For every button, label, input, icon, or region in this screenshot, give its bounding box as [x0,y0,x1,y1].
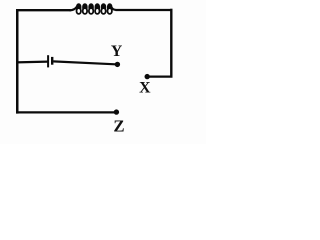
wire: middle branch, battery to terminal Y [53,61,115,64]
svg-text:Z: Z [113,116,124,135]
wire: top-left horizontal segment (to inductor) [16,9,71,11]
battery cell: long plate (left) [47,55,49,67]
wire: right vertical side [170,9,172,77]
node: terminal dot Z [114,109,119,114]
inductor L (coil, 6 loops) [70,5,116,14]
svg-text:X: X [139,79,151,96]
svg-text:Y: Y [111,43,123,60]
wire: bottom horizontal (to terminal Z) [16,111,116,113]
battery cell: short plate (right) [51,57,53,65]
wire: middle branch, left of battery [16,60,47,63]
node: terminal dot X [145,74,150,79]
wire: top-right horizontal segment (inductor to right side) [116,9,173,11]
wire: horizontal leg to terminal X [147,75,172,77]
wire: left vertical side of loop [16,9,19,114]
node: terminal dot Y [115,62,120,67]
